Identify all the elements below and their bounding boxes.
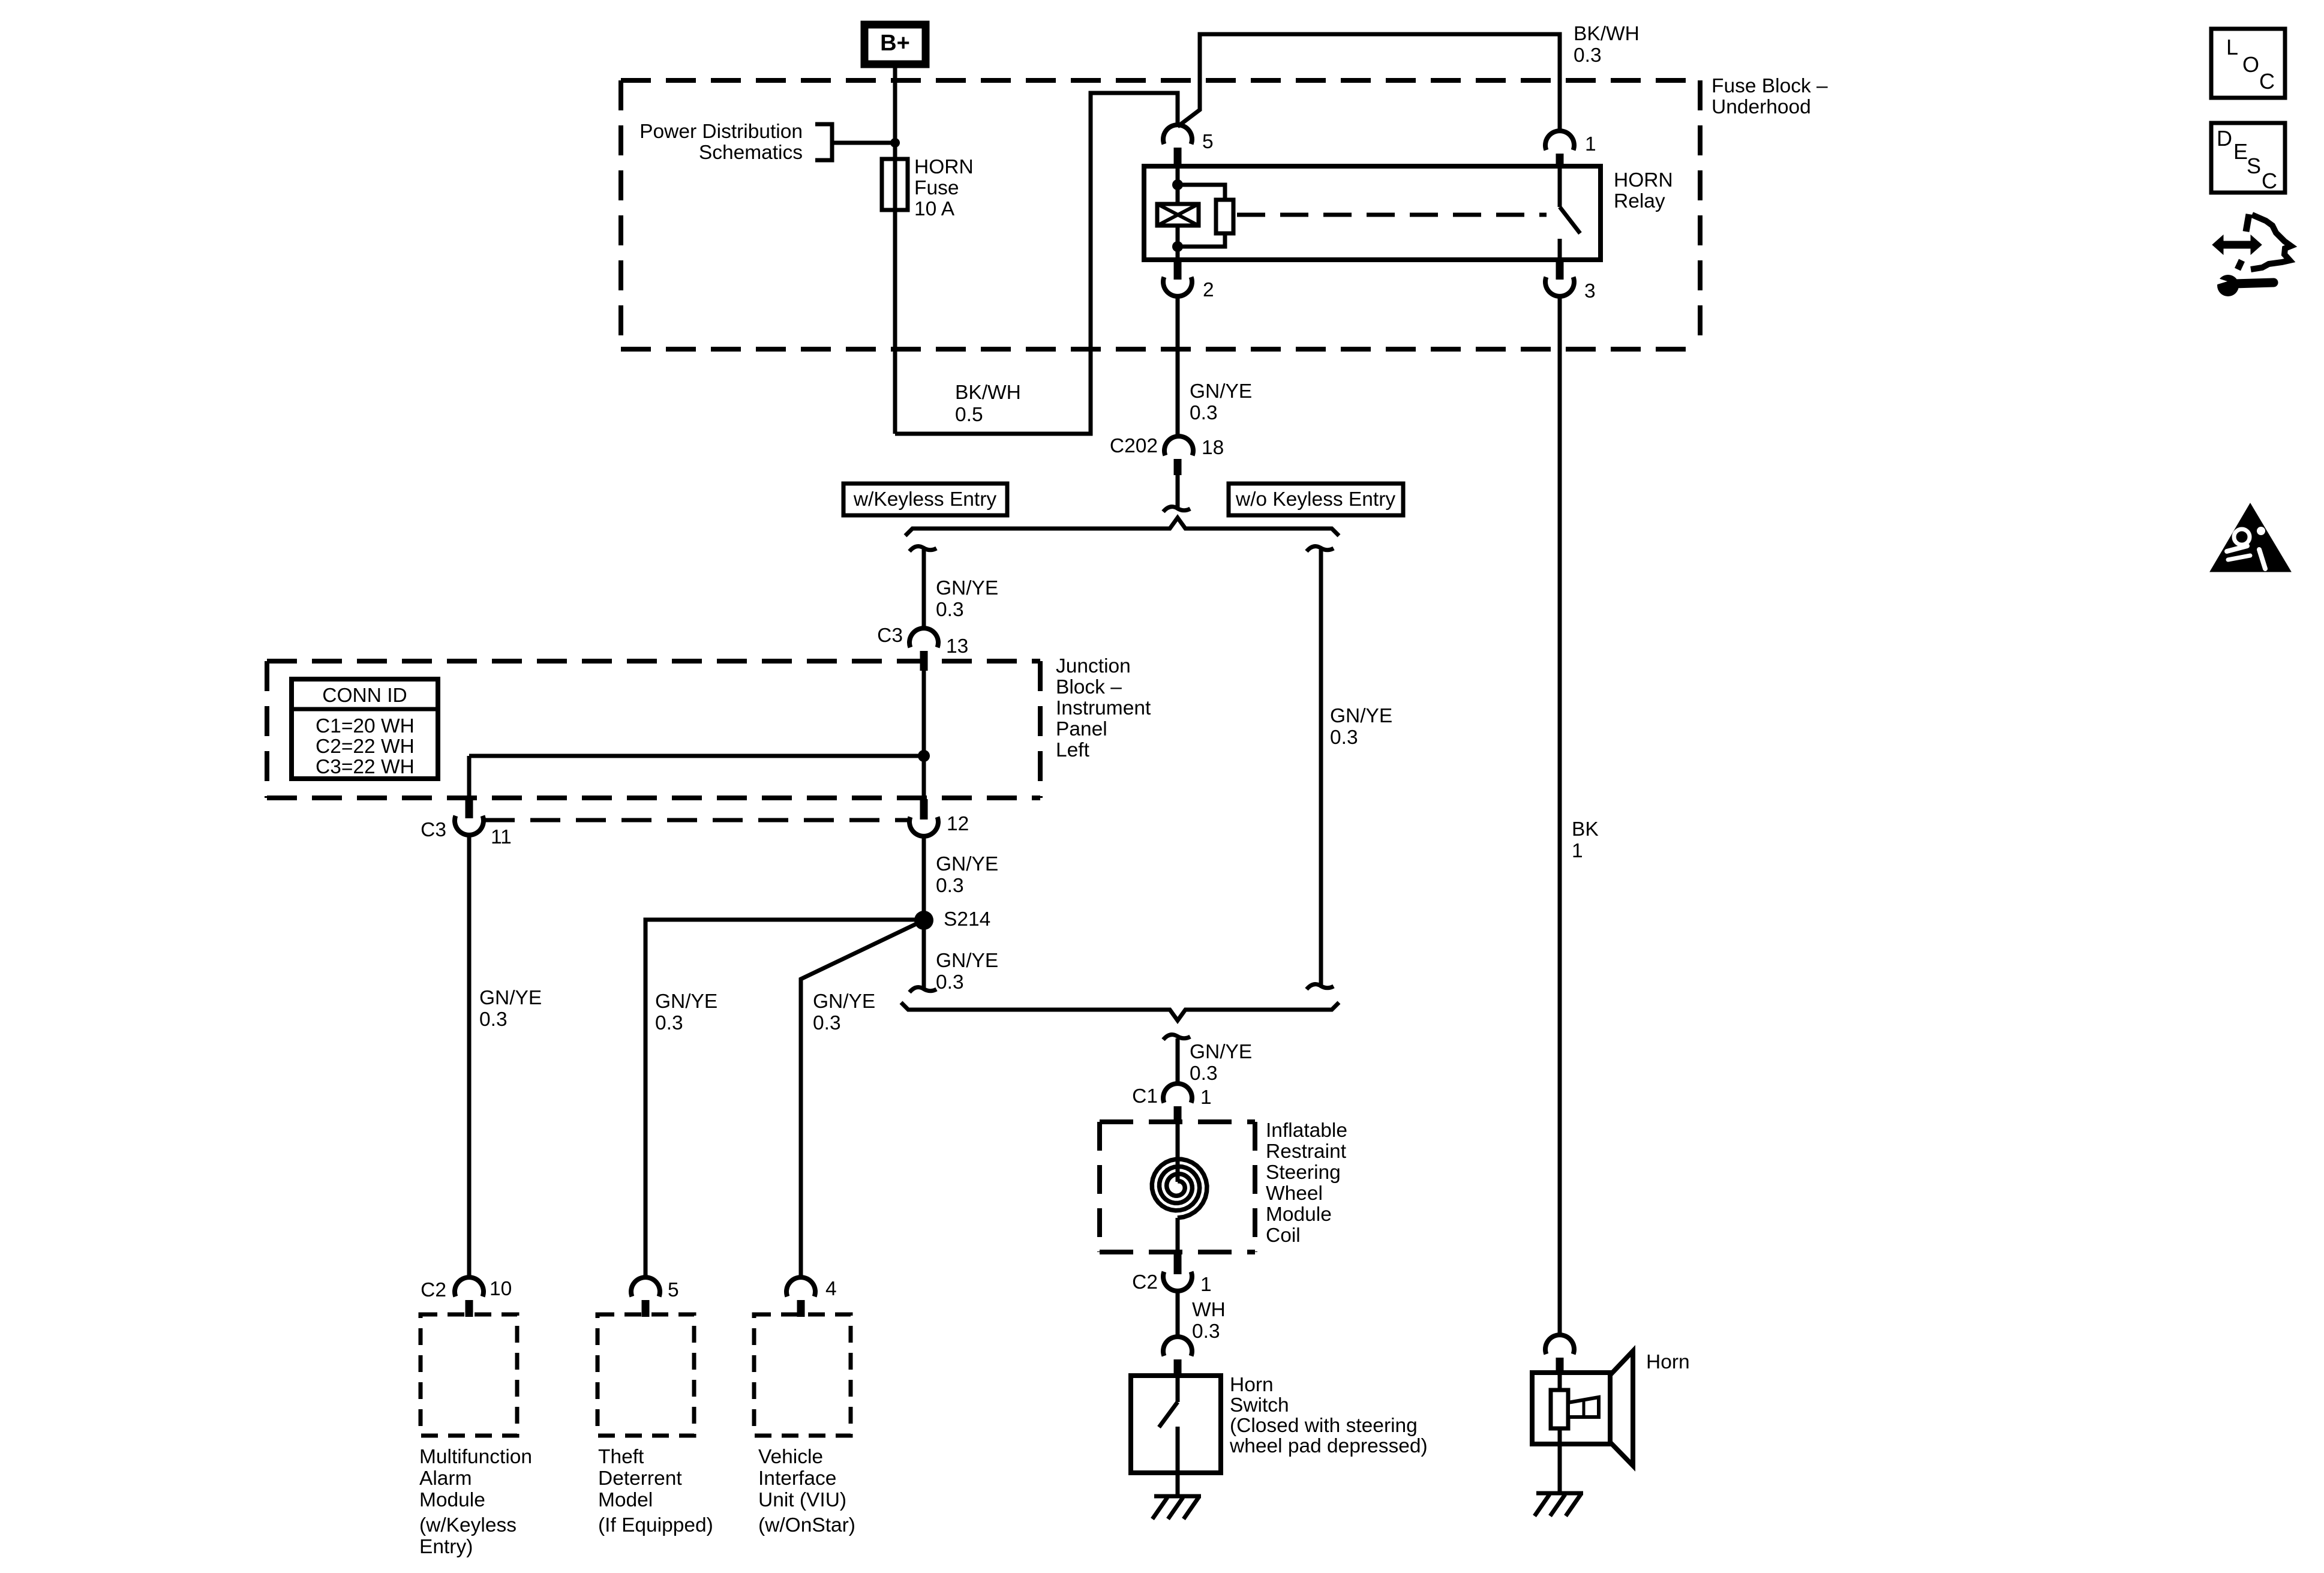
wire branch to pin 11	[469, 754, 924, 758]
svg-text:Panel: Panel	[1056, 718, 1107, 740]
vehicle interface unit dashed box	[754, 1314, 851, 1436]
node junction block	[918, 750, 930, 762]
horn trumpet glyph	[1568, 1397, 1599, 1417]
svg-text:GN/YE: GN/YE	[936, 577, 998, 599]
svg-text:HORN: HORN	[1614, 169, 1673, 191]
wire switch to ground	[1176, 1473, 1180, 1496]
svg-text:Horn: Horn	[1646, 1351, 1690, 1373]
horn body	[1532, 1373, 1610, 1444]
svg-text:Fuse: Fuse	[914, 177, 959, 199]
svg-text:wheel pad depressed): wheel pad depressed)	[1229, 1435, 1428, 1457]
svg-text:Inflatable: Inflatable	[1266, 1119, 1347, 1142]
svg-text:BK/WH: BK/WH	[955, 382, 1021, 404]
svg-text:GN/YE: GN/YE	[936, 950, 998, 972]
svg-text:GN/YE: GN/YE	[1190, 1041, 1252, 1063]
svg-text:0.5: 0.5	[955, 404, 983, 426]
svg-text:C3=22 WH: C3=22 WH	[316, 756, 415, 778]
wire node to resistor	[1178, 185, 1225, 200]
wire S214 to VIU GN/YE 0.3	[801, 920, 924, 1277]
svg-text:CONN ID: CONN ID	[322, 685, 407, 707]
svg-text:Model: Model	[598, 1489, 653, 1511]
service icon double arrow	[2212, 235, 2262, 254]
left branch hook	[909, 547, 936, 551]
svg-text:L: L	[2226, 35, 2238, 59]
svg-text:Relay: Relay	[1614, 190, 1665, 212]
svg-text:GN/YE: GN/YE	[655, 990, 717, 1013]
svg-text:Module: Module	[419, 1489, 485, 1511]
svg-text:BK: BK	[1572, 818, 1599, 840]
power distribution schematics bracket	[815, 124, 832, 160]
svg-text:0.3: 0.3	[655, 1012, 683, 1034]
wire B+ to fuse	[893, 64, 897, 434]
node coil bottom	[1172, 241, 1183, 252]
relay coil branch wire	[1176, 166, 1180, 204]
svg-text:C1=20 WH: C1=20 WH	[316, 715, 415, 737]
svg-text:HORN: HORN	[914, 156, 974, 178]
fuse HORN Fuse 10 A	[882, 159, 908, 210]
svg-text:C: C	[2259, 69, 2275, 94]
svg-text:5: 5	[1202, 131, 1214, 153]
svg-text:Unit (VIU): Unit (VIU)	[758, 1489, 846, 1511]
option flag w/Keyless Entry	[843, 484, 1007, 515]
svg-text:0.3: 0.3	[479, 1008, 508, 1031]
horn connector	[1545, 1335, 1574, 1354]
svg-text:Vehicle: Vehicle	[758, 1446, 823, 1468]
svg-text:Module: Module	[1266, 1203, 1332, 1226]
theft deterrent model dashed box	[597, 1314, 694, 1436]
svg-text:12: 12	[947, 813, 969, 835]
svg-text:0.3: 0.3	[1190, 402, 1218, 424]
svg-text:Horn: Horn	[1230, 1374, 1274, 1396]
svg-text:10 A: 10 A	[914, 198, 955, 220]
svg-text:C202: C202	[1110, 435, 1158, 457]
wire resistor to coil bottom node	[1178, 233, 1225, 247]
service icon wrench	[2217, 275, 2239, 296]
svg-text:GN/YE: GN/YE	[1190, 380, 1252, 403]
wire BK/WH 0.3 pin 5 over to pin 1	[1178, 34, 1560, 131]
splice S214	[914, 911, 933, 930]
wire C202 down to option split	[1176, 475, 1180, 508]
ground horn	[1536, 1491, 1583, 1496]
svg-text:(w/Keyless: (w/Keyless	[419, 1514, 517, 1536]
svg-text:1: 1	[1572, 840, 1583, 862]
option split brace	[905, 518, 1339, 536]
wire out of coil	[1176, 1218, 1180, 1254]
svg-text:10: 10	[490, 1278, 512, 1300]
relay pin 2 connector	[1174, 260, 1182, 280]
svg-text:GN/YE: GN/YE	[1330, 705, 1392, 727]
connector C2 pin 1	[1174, 1254, 1182, 1274]
svg-text:S214: S214	[944, 908, 990, 930]
svg-text:C3: C3	[877, 625, 903, 647]
connector C3 pin 12	[920, 799, 928, 819]
wire end hook w/o branch	[1307, 984, 1334, 989]
LOC icon	[2211, 29, 2285, 98]
svg-text:GN/YE: GN/YE	[813, 990, 875, 1013]
svg-text:0.3: 0.3	[1574, 44, 1602, 67]
wire merge to C1 GN/YE 0.3	[1176, 1038, 1180, 1083]
svg-text:Block –: Block –	[1056, 676, 1122, 698]
relay pin 5 connector	[1163, 125, 1192, 144]
svg-text:0.3: 0.3	[1190, 1062, 1218, 1085]
connector pin 4 VIU	[786, 1277, 815, 1296]
svg-text:0.3: 0.3	[936, 599, 964, 621]
svg-text:2: 2	[1203, 279, 1214, 301]
relay pin 3 connector	[1556, 260, 1564, 280]
wire end hook	[1163, 507, 1190, 512]
svg-text:Instrument: Instrument	[1056, 697, 1151, 719]
wire right branch w/o keyless GN/YE 0.3	[1319, 550, 1323, 986]
svg-text:Underhood: Underhood	[1712, 96, 1811, 118]
svg-text:S: S	[2247, 154, 2261, 178]
wire BK/WH 0.5 fuse to relay pin 5	[895, 93, 1178, 434]
svg-text:1: 1	[1200, 1274, 1212, 1296]
wire pin13 to pin12 inside junction block	[922, 671, 926, 800]
option flag w/o Keyless Entry	[1229, 484, 1403, 515]
svg-text:Junction: Junction	[1056, 655, 1131, 677]
option merge brace	[901, 1002, 1339, 1020]
wire horn to ground	[1558, 1444, 1562, 1493]
merged wire hook	[1163, 1035, 1190, 1040]
svg-text:C2: C2	[421, 1279, 446, 1301]
service icon outline	[2246, 214, 2249, 232]
relay switch	[1558, 168, 1562, 207]
relay pin 1 connector	[1545, 131, 1574, 150]
relay HORN Relay box	[1144, 166, 1601, 260]
wire down to pin 11	[467, 756, 472, 799]
multifunction alarm module dashed box	[421, 1314, 517, 1436]
svg-text:Theft: Theft	[598, 1446, 644, 1468]
horn switch contacts	[1176, 1376, 1180, 1402]
wire coil to pin 2	[1176, 226, 1180, 260]
svg-text:13: 13	[946, 635, 968, 658]
svg-text:3: 3	[1584, 280, 1596, 302]
svg-text:0.3: 0.3	[936, 875, 964, 897]
svg-text:Wheel: Wheel	[1266, 1182, 1323, 1205]
svg-text:5: 5	[668, 1279, 679, 1301]
wire bracket to node	[832, 141, 895, 145]
connector pin 5 theft deterrent	[631, 1277, 660, 1296]
svg-text:4: 4	[825, 1278, 837, 1300]
wire S214 to theft deterrent GN/YE 0.3	[645, 920, 924, 1277]
battery feed B+	[864, 25, 926, 64]
svg-text:0.3: 0.3	[813, 1012, 841, 1034]
right branch hook	[1307, 547, 1334, 551]
svg-text:Coil: Coil	[1266, 1224, 1301, 1247]
svg-text:C3: C3	[421, 819, 446, 841]
svg-text:WH: WH	[1192, 1299, 1226, 1321]
inflatable restraint coil dashed box	[1100, 1119, 1255, 1124]
SIR warning triangle	[2210, 503, 2291, 572]
horn switch connector	[1163, 1337, 1192, 1356]
wire left branch w/keyless GN/YE 0.3	[922, 550, 926, 628]
node power distribution tap	[890, 138, 900, 148]
svg-text:w/Keyless Entry: w/Keyless Entry	[853, 488, 997, 511]
horn switch box	[1131, 1376, 1221, 1473]
ground horn switch	[1154, 1494, 1201, 1499]
svg-text:C2=22 WH: C2=22 WH	[316, 736, 415, 758]
svg-text:Power Distribution: Power Distribution	[639, 121, 803, 143]
wire pin12 to S214 GN/YE 0.3	[922, 836, 926, 920]
svg-text:18: 18	[1202, 437, 1224, 459]
horn armature	[1558, 1373, 1562, 1390]
svg-text:0.3: 0.3	[936, 971, 964, 993]
coil spiral	[1152, 1159, 1207, 1218]
svg-text:w/o Keyless Entry: w/o Keyless Entry	[1235, 488, 1395, 511]
svg-text:Multifunction: Multifunction	[419, 1446, 532, 1468]
relay coil box with X	[1157, 204, 1199, 226]
fuse block underhood dashed box	[621, 78, 1700, 83]
junction block dashed box	[267, 659, 1040, 664]
DESC icon	[2211, 123, 2285, 193]
svg-text:D: D	[2217, 126, 2232, 151]
CONN ID table	[292, 679, 438, 779]
connector C3 pin 11	[466, 798, 473, 818]
svg-text:0.3: 0.3	[1192, 1320, 1220, 1343]
svg-text:BK/WH: BK/WH	[1574, 23, 1640, 45]
svg-text:Entry): Entry)	[419, 1536, 473, 1558]
svg-text:C1: C1	[1132, 1085, 1158, 1107]
wire pin 3 to horn BK 1	[1558, 296, 1562, 1337]
svg-text:Fuse Block –: Fuse Block –	[1712, 75, 1828, 97]
svg-text:1: 1	[1585, 133, 1596, 155]
svg-text:Left: Left	[1056, 739, 1090, 761]
svg-text:Interface: Interface	[758, 1467, 836, 1490]
svg-text:Deterrent: Deterrent	[598, 1467, 682, 1490]
svg-text:Restraint: Restraint	[1266, 1140, 1347, 1163]
connector C3 dashed tie	[485, 818, 909, 822]
svg-text:B+: B+	[880, 31, 910, 56]
wire C3-11 to alarm module GN/YE 0.3	[467, 835, 472, 1277]
relay resistor	[1216, 200, 1233, 233]
wire into coil	[1176, 1123, 1180, 1182]
svg-text:GN/YE: GN/YE	[479, 987, 542, 1009]
svg-text:(w/OnStar): (w/OnStar)	[758, 1514, 855, 1536]
svg-text:GN/YE: GN/YE	[936, 853, 998, 875]
svg-text:(Closed with steering: (Closed with steering	[1230, 1415, 1418, 1437]
wire end hook S214 branch	[909, 987, 936, 992]
svg-text:E: E	[2233, 139, 2248, 164]
wire pin2 to C202 GN/YE 0.3	[1176, 296, 1180, 436]
svg-text:Schematics: Schematics	[699, 142, 803, 164]
svg-text:1: 1	[1200, 1086, 1212, 1109]
svg-text:(If Equipped): (If Equipped)	[598, 1514, 713, 1536]
svg-text:C: C	[2262, 169, 2277, 193]
svg-text:Steering: Steering	[1266, 1161, 1341, 1184]
relay control dashed line	[1237, 213, 1547, 217]
svg-text:C2: C2	[1132, 1271, 1158, 1293]
wire C2 to horn switch WH 0.3	[1176, 1291, 1180, 1337]
svg-text:11: 11	[491, 826, 512, 848]
wire S214 down GN/YE 0.3	[922, 920, 926, 989]
svg-text:Switch: Switch	[1230, 1394, 1289, 1416]
svg-text:0.3: 0.3	[1330, 727, 1358, 749]
horn bell	[1610, 1351, 1633, 1466]
node coil top	[1172, 179, 1183, 190]
svg-text:O: O	[2242, 52, 2259, 77]
svg-text:Alarm: Alarm	[419, 1467, 472, 1490]
